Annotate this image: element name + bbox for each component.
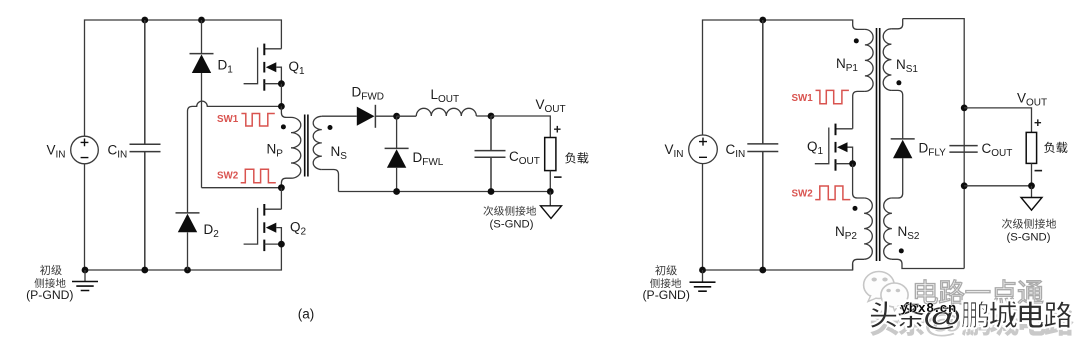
wire N_S1 top to output	[903, 19, 965, 108]
svg-text:SW1: SW1	[792, 93, 814, 104]
phase dot N_S1	[896, 80, 901, 85]
svg-text:VOUT: VOUT	[1017, 91, 1047, 109]
svg-text:VIN: VIN	[47, 143, 66, 161]
ground S-GND left	[541, 192, 562, 219]
node L_OUT output	[488, 113, 495, 120]
secondary winding N_S1	[883, 19, 918, 139]
svg-text:D2: D2	[204, 222, 220, 240]
wire V_OUT top right	[964, 108, 1031, 132]
diode D2	[176, 213, 220, 270]
svg-text:NP: NP	[267, 142, 284, 160]
transistor Q2 left	[244, 188, 307, 251]
diode D1	[190, 20, 234, 188]
node D2 bottom	[184, 267, 191, 274]
label S-GND right	[1002, 219, 1056, 244]
wire V_IN bottom lead	[84, 164, 86, 270]
node top rail / C_IN tap	[141, 17, 148, 24]
svg-text:VOUT: VOUT	[536, 97, 566, 115]
wire V_OUT top left circuit	[491, 116, 550, 138]
svg-text:COUT: COUT	[509, 149, 540, 167]
inductor L_OUT	[397, 87, 491, 116]
svg-text:NP2: NP2	[835, 224, 857, 242]
wire top rail left	[85, 20, 282, 136]
phase dot N_P2	[853, 206, 858, 211]
transformer core right	[877, 28, 880, 261]
svg-text:NS2: NS2	[898, 224, 920, 242]
wire top rail right	[703, 20, 853, 135]
source V_IN	[47, 136, 99, 164]
node load bottom right	[1028, 182, 1035, 189]
wire bottom rail right	[703, 264, 853, 270]
node C_IN right bottom	[759, 267, 766, 274]
capacitor C_OUT right	[949, 141, 1012, 159]
node load bottom left	[547, 188, 554, 195]
phase dot N_P	[281, 124, 286, 129]
svg-text:VIN: VIN	[665, 142, 684, 160]
transformer core left	[305, 115, 308, 177]
ground S-GND right	[1021, 186, 1042, 210]
phase dot N_S2	[899, 248, 904, 253]
svg-text:DFWD: DFWD	[352, 85, 385, 103]
svg-text:NS: NS	[331, 144, 348, 162]
node output bottom right	[961, 182, 968, 189]
watermark chat logo	[864, 272, 909, 311]
wire output rail vertical right	[963, 108, 965, 269]
svg-text:(S-GND): (S-GND)	[1007, 232, 1051, 244]
capacitor C_IN	[108, 20, 161, 270]
svg-text:NS1: NS1	[896, 57, 918, 75]
svg-text:CIN: CIN	[108, 143, 128, 161]
node top rail right C_IN tap	[759, 17, 766, 24]
secondary winding N_S2	[884, 198, 965, 269]
primary winding N_P1	[836, 25, 873, 129]
waveform SW1 left	[241, 114, 274, 127]
primary winding N_P2	[835, 198, 872, 270]
transistor Q1 right	[807, 124, 856, 171]
node top rail / D1 tap	[198, 17, 205, 24]
watermark text 头条@鹏城电路	[869, 300, 1072, 332]
node switch node SW1	[278, 103, 285, 110]
svg-text:D1: D1	[218, 58, 234, 76]
svg-text:(a): (a)	[298, 307, 315, 322]
svg-text:SW1: SW1	[217, 114, 239, 125]
wire switch node to D2 with hop over D1 wire	[188, 101, 282, 213]
wire bottom rail left	[84, 244, 281, 270]
label S-GND left	[483, 206, 536, 231]
node C_OUT bottom left	[488, 188, 495, 195]
load resistor left	[545, 122, 589, 192]
node V_IN right bottom	[699, 267, 706, 274]
ground P-GND right	[690, 270, 716, 291]
svg-text:(S-GND): (S-GND)	[490, 219, 534, 231]
svg-text:+: +	[554, 122, 562, 137]
label P-GND right	[643, 265, 690, 302]
svg-text:(P-GND): (P-GND)	[26, 288, 73, 302]
wire secondary top to D_FWD	[322, 115, 357, 117]
svg-text:CIN: CIN	[726, 142, 746, 160]
capacitor C_IN right	[726, 20, 779, 270]
wire V_IN right bottom lead	[702, 164, 704, 270]
svg-text:LOUT: LOUT	[431, 87, 460, 105]
node output top right	[961, 105, 968, 112]
label P-GND left	[26, 265, 73, 302]
svg-text:Q1: Q1	[807, 139, 824, 157]
svg-text:DFLY: DFLY	[919, 141, 947, 159]
svg-text:Q2: Q2	[290, 220, 307, 238]
svg-text:NP1: NP1	[836, 56, 858, 74]
watermark text 头条@鹏城电路 shadow	[870, 307, 1073, 339]
wire secondary bottom rail left	[339, 191, 551, 193]
svg-text:+: +	[1034, 115, 1042, 130]
svg-text:(P-GND): (P-GND)	[643, 288, 690, 302]
svg-text:Q1: Q1	[289, 59, 306, 77]
secondary winding N_S	[313, 116, 347, 191]
waveform SW2 right	[815, 186, 850, 200]
node V_IN bottom	[82, 267, 89, 274]
load resistor right	[1026, 115, 1067, 186]
watermark text 电路一点通	[915, 280, 1043, 304]
waveform SW2 left	[241, 169, 276, 183]
phase dot N_S	[328, 125, 333, 130]
wire output bottom to load right	[964, 185, 1031, 187]
waveform SW1 right	[816, 90, 849, 103]
svg-text:−: −	[1034, 163, 1043, 180]
diode D_FWL freewheel	[385, 116, 444, 191]
ground P-GND left	[72, 270, 98, 291]
svg-text:SW2: SW2	[217, 170, 239, 181]
transistor Q1 left	[244, 44, 305, 91]
svg-text:−: −	[554, 169, 563, 186]
phase dot N_P1	[854, 38, 859, 43]
wire D1 anode to primary bottom node	[202, 187, 282, 189]
wire Q1 source to switch node	[280, 84, 282, 107]
diode D_FLY	[891, 139, 946, 198]
svg-text:COUT: COUT	[982, 141, 1013, 159]
capacitor C_OUT left	[475, 116, 540, 192]
source V_IN right	[665, 135, 718, 164]
primary winding N_P	[267, 106, 301, 187]
node D_FWL anode	[393, 188, 400, 195]
node primary bottom	[278, 184, 285, 191]
svg-text:ybx8.cn: ybx8.cn	[901, 300, 958, 315]
wire Q1 source to N_P2	[853, 164, 865, 198]
node D_FWD cathode	[393, 113, 400, 120]
diode D_FWD	[352, 85, 397, 128]
svg-text:SW2: SW2	[792, 189, 814, 200]
node C_IN bottom	[141, 267, 148, 274]
svg-text:DFWL: DFWL	[413, 150, 444, 168]
